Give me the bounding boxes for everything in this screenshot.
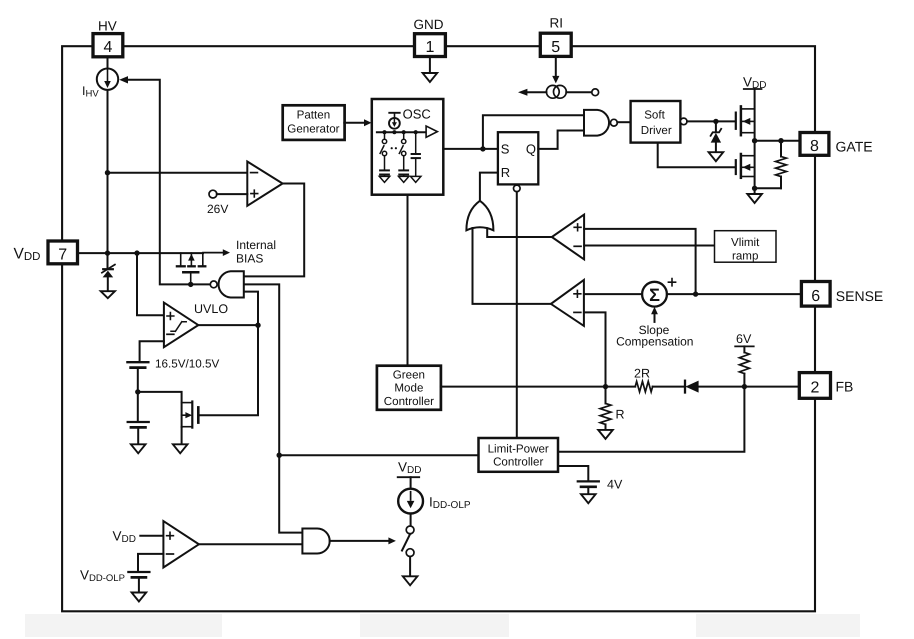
svg-text:Generator: Generator xyxy=(287,122,339,135)
svg-text:6: 6 xyxy=(811,288,820,305)
svg-text:Vlimit: Vlimit xyxy=(731,236,760,249)
svg-text:1: 1 xyxy=(425,39,434,56)
svg-text:7: 7 xyxy=(58,246,67,263)
svg-text:SENSE: SENSE xyxy=(836,288,883,304)
svg-text:R: R xyxy=(501,165,510,180)
svg-text:RI: RI xyxy=(550,16,564,31)
svg-text:8: 8 xyxy=(810,138,819,155)
svg-text:Σ: Σ xyxy=(649,285,660,305)
svg-text:S: S xyxy=(501,142,510,157)
svg-text:Mode: Mode xyxy=(394,381,423,394)
svg-text:Q: Q xyxy=(526,142,536,157)
svg-text:FB: FB xyxy=(836,378,854,394)
svg-text:UVLO: UVLO xyxy=(194,302,228,316)
svg-text:Limit-Power: Limit-Power xyxy=(488,443,549,456)
svg-text:GATE: GATE xyxy=(836,139,873,155)
svg-text:Internal: Internal xyxy=(236,238,276,252)
svg-text:2R: 2R xyxy=(634,367,650,381)
svg-text:6V: 6V xyxy=(736,332,752,346)
svg-text:GND: GND xyxy=(414,17,444,32)
svg-text:BIAS: BIAS xyxy=(236,252,263,266)
svg-text:26V: 26V xyxy=(207,202,228,216)
svg-text:Controller: Controller xyxy=(384,395,434,408)
svg-text:OSC: OSC xyxy=(403,107,431,122)
svg-text:Compensation: Compensation xyxy=(616,334,693,348)
svg-text:5: 5 xyxy=(551,39,560,56)
svg-text:4V: 4V xyxy=(607,478,623,492)
svg-text:Soft: Soft xyxy=(644,108,665,121)
svg-text:Controller: Controller xyxy=(493,455,543,468)
svg-text:Green: Green xyxy=(393,369,425,382)
svg-text:R: R xyxy=(616,408,625,422)
svg-text:Patten: Patten xyxy=(297,108,331,121)
svg-text:HV: HV xyxy=(98,19,117,34)
svg-text:4: 4 xyxy=(103,39,112,56)
svg-text:2: 2 xyxy=(810,379,819,396)
svg-text:16.5V/10.5V: 16.5V/10.5V xyxy=(155,357,220,370)
svg-text:Driver: Driver xyxy=(641,124,672,137)
svg-text:ramp: ramp xyxy=(732,249,758,262)
